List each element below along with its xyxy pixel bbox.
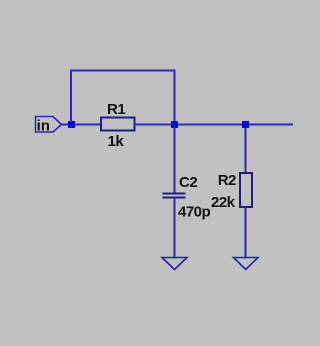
resistor R2: [240, 173, 252, 207]
wire node A to R1: [75, 124, 101, 126]
svg-text:in: in: [37, 118, 50, 135]
svg-text:R1: R1: [107, 101, 125, 118]
wire node C down to R2: [245, 127, 247, 174]
wire R1 to node B: [135, 124, 172, 126]
node C junction: [242, 121, 249, 128]
svg-text:1k: 1k: [108, 133, 125, 150]
wire feedback left vertical: [70, 71, 72, 123]
svg-text:C2: C2: [179, 174, 197, 191]
value 470p: [178, 204, 211, 221]
node A junction: [68, 121, 75, 128]
label C2: [179, 174, 197, 191]
ground GND1: [162, 258, 187, 270]
value 1k: [108, 133, 125, 150]
svg-text:R2: R2: [218, 172, 236, 189]
resistor R1: [101, 118, 135, 131]
svg-text:470p: 470p: [178, 204, 211, 221]
wire feedback top horizontal: [70, 70, 176, 72]
label R1: [107, 101, 125, 118]
node B junction: [171, 121, 178, 128]
value 22k: [211, 194, 236, 211]
wire C2 to ground: [174, 199, 176, 259]
wire node C to right edge: [249, 124, 293, 126]
port label in: [37, 118, 50, 135]
wire R2 to ground: [245, 207, 247, 259]
wire node B down to C2: [174, 127, 176, 193]
capacitor C2: [163, 194, 186, 198]
port in: [36, 117, 62, 133]
wire node B to node C: [178, 124, 242, 126]
label R2: [218, 172, 236, 189]
wire feedback right vertical: [174, 71, 176, 123]
wire port to node A: [62, 124, 72, 126]
ground GND2: [234, 258, 259, 270]
svg-text:22k: 22k: [211, 194, 236, 211]
